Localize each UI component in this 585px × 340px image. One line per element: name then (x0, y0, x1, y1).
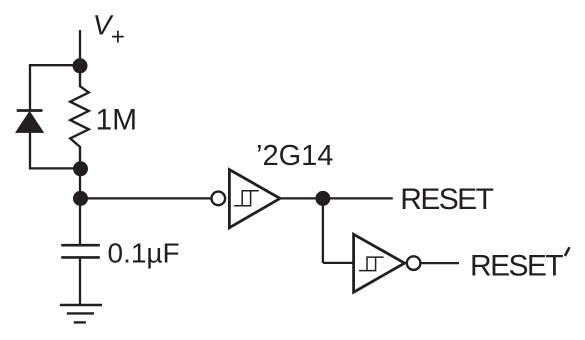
ground (60, 305, 102, 322)
inverter U2 (Schmitt, output bubble) (354, 234, 421, 292)
wire from V+ down to top node (79, 30, 81, 66)
wire: between nodes (79, 169, 81, 199)
wire: to U2 input (323, 262, 354, 264)
svg-text:+: + (111, 23, 125, 50)
wire: U2 output to RESET' (421, 262, 459, 264)
svg-text:RESET: RESET (400, 183, 493, 216)
svg-text:1M: 1M (96, 103, 138, 136)
prime mark of RESET' (565, 247, 570, 256)
wire: diode anode down and right to node (30, 132, 80, 168)
diode D1 (cathode at top) (16, 111, 43, 133)
label RESET' (470, 249, 563, 282)
junction dot: RC node (73, 191, 88, 206)
inverter U1 (Schmitt, input bubble) (212, 170, 281, 228)
wire: capacitor to ground (79, 257, 81, 305)
wire: top node left and down to diode cathode (30, 65, 80, 110)
junction dot: RESET node (315, 191, 330, 206)
wire: RC node down to capacitor (79, 198, 81, 245)
junction dot: top node (73, 58, 88, 73)
capacitor C1 (61, 245, 100, 257)
label V+ (supply) (91, 9, 125, 51)
junction dot: resistor bottom / diode node (73, 161, 88, 176)
wire: U1 output to RESET (280, 197, 393, 199)
svg-text:’2G14: ’2G14 (256, 140, 333, 172)
svg-text:0.1µF: 0.1µF (108, 238, 180, 269)
wire: RESET node down (322, 198, 324, 263)
resistor R1 (70, 66, 89, 169)
svg-text:RESET: RESET (470, 249, 563, 282)
wire: RC node to inverter U1 input (80, 197, 211, 199)
